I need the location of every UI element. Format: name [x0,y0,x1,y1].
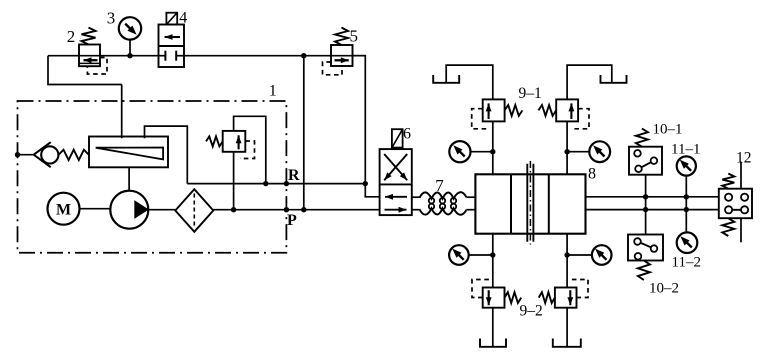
gauge top-left [449,141,470,162]
relief valve body (inside unit) [223,131,246,152]
valve 9-1 left body [483,99,505,121]
valve 5 body [331,45,353,66]
wire relief valve bottom to P line [233,152,235,210]
pilot of valve 9-2 left (dashed) [472,280,490,298]
gauge 3 stem [129,40,131,56]
svg-text:4: 4 [179,10,187,27]
wire motor shaft [80,208,111,210]
label P [287,212,297,229]
pilot line of valve 2 (dashed) [87,58,107,75]
node bottom-left gauge junction [490,252,495,257]
node riser joins P line [301,207,306,212]
wire gauge to pipe (top-left) [471,151,493,153]
wire down to valve 6 R port [365,184,379,197]
wire control pin into stroking box [121,85,123,139]
label 2 [67,27,76,46]
wire gauge to pipe (bottom-right) [567,254,592,256]
spring of switch 10-1 [636,129,648,147]
cylinder piston wall left [510,174,512,233]
pilot of valve 9-2 right (dashed) [569,280,588,298]
wire valve 9-2 right to tank [566,308,568,347]
svg-text:12: 12 [736,150,752,167]
label 10-1 [653,122,683,138]
node rod upper / switch pin [643,194,648,199]
spring of valve 9-1 right [538,105,556,116]
cylinder central partition left line [526,164,528,242]
wire top coil to cylinder [467,196,476,198]
label R [288,167,300,184]
spring above block 12 [722,174,734,189]
gauge 11-1 [677,156,696,175]
node top-left gauge junction [490,149,495,154]
valve 6 lower position arrows [385,194,408,213]
valve 4 lower position blocked ports [159,51,185,61]
label 9-1 [519,85,542,102]
wire riser from manifold to P line [303,56,305,210]
svg-text:9–1: 9–1 [519,85,542,102]
detent block 12 [719,189,752,219]
spring of valve 5 [335,28,348,46]
wire piston rod lower line [586,209,719,211]
solenoid of valve 4 [166,13,177,25]
pilot of relief valve (dashed) [240,141,255,159]
pilot line of valve 5 (dashed) [323,62,343,75]
spring of valve 9-1 left [505,105,523,116]
wire stroking box to pump [128,167,130,191]
wire below block 12 [740,218,742,242]
cylinder central partition right line [532,164,534,242]
valve 9-2 left body [483,288,505,308]
tank bottom-right [553,339,581,347]
filter element (dashed) [193,194,195,228]
wire relief valve top loop to R line [234,116,266,183]
gauge 3 [119,17,141,39]
node gauge 3 junction [127,53,132,58]
wire limit-switch pin [645,175,647,235]
motor M circle [48,193,80,225]
svg-text:5: 5 [350,27,359,46]
tank top-right [601,75,627,83]
wire cylinder bottom-right pipe [566,234,568,288]
wire valve 9-1 right exhaust to tank [567,65,612,99]
spring of relief valve [206,136,223,146]
filter diamond [175,189,213,232]
wire feedback link from R riser to stroking box [145,126,188,184]
label 12 [736,150,752,167]
node top-right gauge junction [564,149,569,154]
wire piston rod upper line [586,196,719,198]
pilot of valve 9-1 right (dashed) [572,109,590,129]
cylinder centerline (dash-dot) [529,161,531,245]
label 4 [179,10,187,27]
coil 7 lower flexible hose [419,204,466,215]
svg-text:8: 8 [588,166,596,183]
wire P line [213,209,379,211]
gauge top-right [589,141,610,162]
node P line crosses enclosure border [284,207,289,212]
node R line crosses enclosure border [284,181,289,186]
valve 6 crossed arrows [384,154,407,180]
valve 9-2 right body [555,288,577,308]
node relief loop joins R line [263,181,268,186]
node relief valve joins P line [231,207,236,212]
spring of valve 9-2 left [505,292,522,303]
stroking wedge [96,148,163,160]
spring between check valve and stroking box [58,150,89,160]
label 6 [403,126,411,143]
svg-text:3: 3 [107,9,116,28]
wire pump to filter [148,209,175,211]
label 1 [269,83,277,100]
svg-text:M: M [56,202,71,219]
valve 4 upper position flow arrow [165,34,181,40]
svg-text:10–2: 10–2 [649,281,679,297]
label 10-2 [649,281,679,297]
tank top-left [433,75,459,83]
svg-text:10–1: 10–1 [653,122,683,138]
wire valve 6 to top coil [412,196,420,198]
coil 7 upper flexible hose [419,192,466,203]
gauge 11-2 [677,232,698,253]
svg-text:1: 1 [269,83,277,100]
wire bottom coil to cylinder [467,209,476,211]
label 8 [588,166,596,183]
pump stroking box [89,137,168,168]
spring of valve 9-2 right [539,292,555,303]
wire valve 9-1 left exhaust to tank [446,65,493,99]
wire gauge to pipe (top-right) [567,151,589,153]
svg-text:11–2: 11–2 [672,255,701,271]
svg-text:6: 6 [403,126,411,143]
wire main manifold line (left segment) [48,55,159,57]
cylinder 8 body [475,174,585,233]
spring of valve 2 [82,28,96,45]
wire valve 5 outlet down to R line [353,56,366,184]
valve 4 body [159,25,185,68]
gauge bottom-left [449,245,469,265]
label 7 [435,176,444,195]
label 11-1 [671,142,700,158]
pump flow triangle [134,200,149,219]
limit switch 10-2 [628,235,663,261]
node rod upper / gauge pin [684,194,689,199]
spring of switch 10-2 [638,261,650,281]
wire R line [187,183,365,185]
svg-text:7: 7 [435,176,444,195]
label 3 [107,9,116,28]
wire cylinder top-right pipe [566,121,568,174]
label M [56,202,71,219]
check valve (seat and ball) [34,142,59,167]
solenoid of valve 6 [392,129,403,147]
svg-text:9–2: 9–2 [520,303,543,320]
pump circle [110,191,148,229]
svg-text:2: 2 [67,27,76,46]
wire gauge to pipe (bottom-left) [469,254,493,256]
valve 6 body [380,149,412,215]
wire to check valve [18,154,34,156]
wire pump-control branch from main line [48,56,122,85]
wire valve 9-2 left to tank [492,308,494,347]
node bottom-right gauge junction [564,252,569,257]
spring below block 12 [722,218,734,236]
wire cylinder top-left pipe [492,121,494,174]
svg-text:P: P [287,212,297,229]
label 5 [350,27,359,46]
node valve-5 line joins R line [363,181,368,186]
label 9-2 [520,303,543,320]
node manifold junction to P riser [301,53,306,58]
wire gauge pin 11 [685,176,687,233]
wire main manifold line (right segment) [184,55,365,57]
enclosure box 1 (dash-dot) [18,101,287,253]
valve 2 body [79,45,100,67]
pilot of valve 9-1 left (dashed) [472,109,489,129]
limit switch 10-1 [629,147,662,175]
node rod lower / switch pin [643,207,648,212]
node rod lower / gauge pin [684,207,689,212]
svg-text:R: R [288,167,300,184]
wire above block 12 [740,162,742,189]
tank bottom-left [480,339,506,347]
valve 9-1 right body [556,99,578,121]
label 11-2 [672,255,701,271]
svg-text:11–1: 11–1 [671,142,700,158]
wire cylinder bottom-left pipe [492,234,494,288]
gauge bottom-right [592,245,612,265]
node check valve tap on enclosure border [15,152,20,157]
wire valve 6 to bottom coil [412,209,420,211]
cylinder piston wall right [548,174,550,233]
